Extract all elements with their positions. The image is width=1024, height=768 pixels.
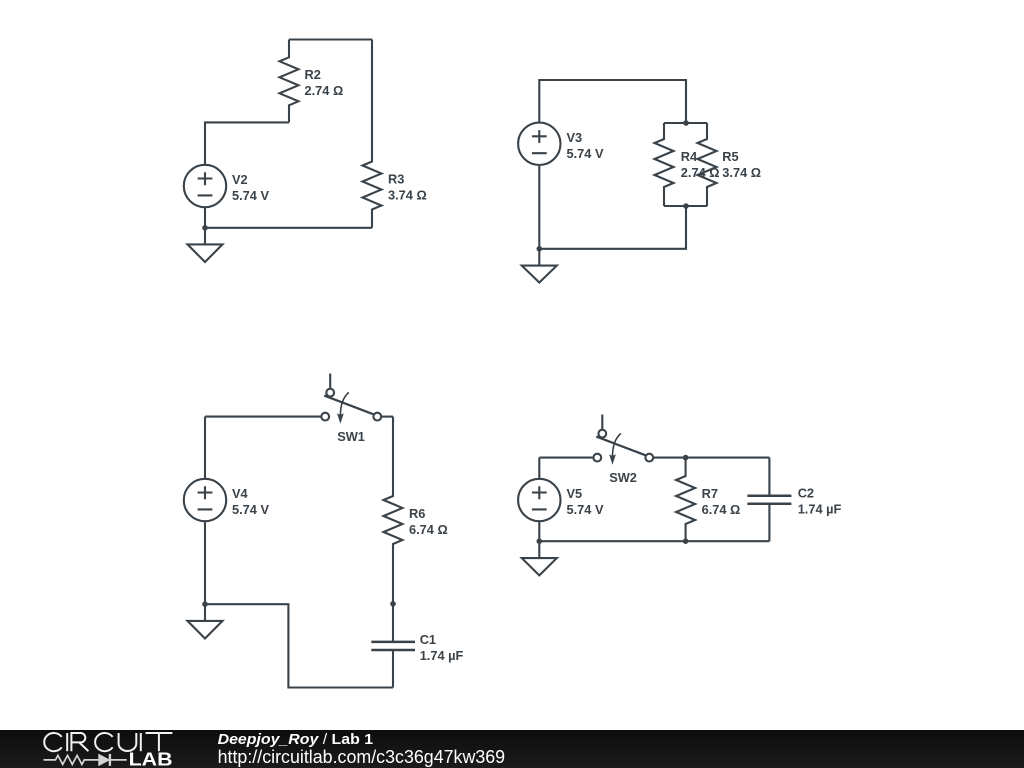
switch SW1 [321,374,381,445]
wire [538,458,540,479]
wire [381,416,393,418]
svg-text:5.74 V: 5.74 V [567,146,604,161]
node [683,120,689,126]
ground [522,541,557,575]
wire [539,540,769,542]
voltage source V3 [518,123,604,165]
node [390,601,396,607]
svg-text:R3: R3 [388,172,404,187]
svg-text:C2: C2 [798,486,814,501]
svg-text:5.74 V: 5.74 V [232,188,269,203]
resistor R2 [280,40,344,123]
footer bar [0,730,1024,768]
node [683,455,689,461]
voltage source V4 [184,479,270,521]
svg-text:V5: V5 [567,486,583,501]
wire [204,417,206,479]
wire [539,457,593,459]
svg-text:3.74 Ω: 3.74 Ω [388,188,427,203]
resistor R4 [655,123,720,206]
node [683,203,689,209]
svg-text:5.74 V: 5.74 V [567,502,604,517]
svg-text:2.74 Ω: 2.74 Ω [305,83,344,98]
capacitor C2 [747,458,841,542]
wire [204,207,206,228]
wire [538,165,540,249]
wire [289,38,372,40]
svg-text:V4: V4 [232,486,249,501]
svg-text:SW1: SW1 [337,429,365,444]
svg-text:R4: R4 [681,149,698,164]
resistor R7 [676,458,740,542]
node [537,246,543,252]
wire [664,122,707,124]
ground [522,249,557,283]
svg-text:R7: R7 [702,486,718,501]
svg-text:3.74 Ω: 3.74 Ω [722,165,761,180]
voltage source V2 [184,165,270,207]
resistor R3 [363,40,427,228]
wire [538,521,540,541]
capacitor C1 [371,604,463,688]
wire [653,457,769,459]
svg-text:V3: V3 [567,130,583,145]
wire [539,206,686,249]
resistor R5 [698,123,762,206]
CircuitLab logo [44,733,173,768]
svg-text:Deepjoy_Roy / Lab 1: Deepjoy_Roy / Lab 1 [218,731,374,748]
svg-text:C1: C1 [420,632,436,647]
node [683,538,689,544]
svg-text:V2: V2 [232,172,248,187]
svg-text:LAB: LAB [129,750,173,768]
wire [205,227,372,229]
wire [204,521,206,604]
ground [188,228,223,262]
switch SW2 [593,415,653,486]
resistor R6 [384,417,448,604]
wire [205,604,393,687]
svg-text:R5: R5 [722,149,738,164]
svg-text:R2: R2 [305,67,321,82]
svg-text:6.74 Ω: 6.74 Ω [702,502,741,517]
node [202,225,208,231]
node [537,538,543,544]
voltage source V5 [518,479,604,521]
svg-text:R6: R6 [409,506,425,521]
svg-text:1.74 µF: 1.74 µF [420,648,464,663]
wire [205,122,289,164]
svg-text:6.74 Ω: 6.74 Ω [409,522,448,537]
ground [188,604,223,638]
svg-text:5.74 V: 5.74 V [232,502,269,517]
wire [205,416,321,418]
svg-text:http://circuitlab.com/c3c36g47: http://circuitlab.com/c3c36g47kw369 [218,747,506,767]
svg-text:1.74 µF: 1.74 µF [798,502,842,517]
wire [664,205,707,207]
svg-text:SW2: SW2 [609,470,637,485]
node [202,601,208,607]
wire [539,80,686,123]
